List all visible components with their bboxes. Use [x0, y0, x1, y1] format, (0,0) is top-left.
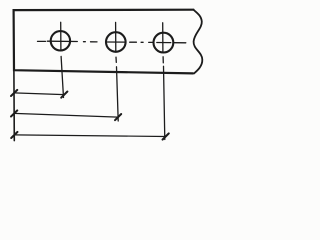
dimension line 1: [14, 93, 64, 95]
vertical center line hole 3: [163, 23, 165, 140]
tick dim1 right: [61, 92, 67, 98]
tick dim2 left: [11, 110, 17, 116]
left extension line: [13, 70, 15, 140]
break line: [194, 10, 203, 74]
vertical center line hole 1: [61, 22, 64, 97]
dimension line 3: [14, 135, 165, 137]
tick dim2 right: [115, 114, 121, 120]
plate outline: [14, 10, 194, 74]
dimension line 2: [14, 113, 118, 117]
hole 2: [106, 32, 126, 52]
tick dim1 left: [11, 90, 17, 96]
hole 1: [51, 31, 70, 50]
tick dim3 left: [11, 132, 17, 138]
tick dim3 right: [163, 133, 169, 139]
hole 3: [154, 33, 174, 53]
center line horizontal: [38, 41, 186, 43]
vertical center line hole 2: [116, 22, 119, 121]
